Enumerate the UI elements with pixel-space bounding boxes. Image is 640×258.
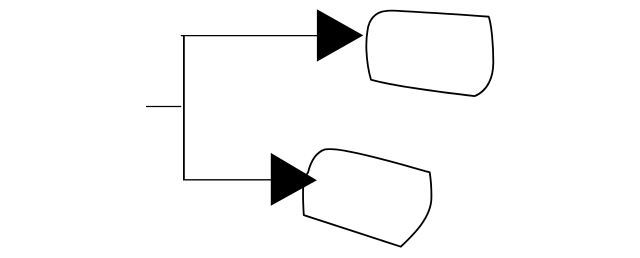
bottom branch wire — [183, 179, 272, 181]
buffer triangle U2 (bottom arrowhead) — [271, 154, 316, 205]
vertical bus wire — [183, 35, 185, 181]
node shape N1 (top hand-drawn rounded box) — [366, 11, 493, 97]
input stub wire — [146, 106, 181, 108]
top branch wire — [181, 35, 318, 37]
buffer triangle U1 (top arrowhead) — [317, 10, 362, 61]
node shape N2 (bottom hand-drawn rounded box) — [303, 149, 431, 247]
